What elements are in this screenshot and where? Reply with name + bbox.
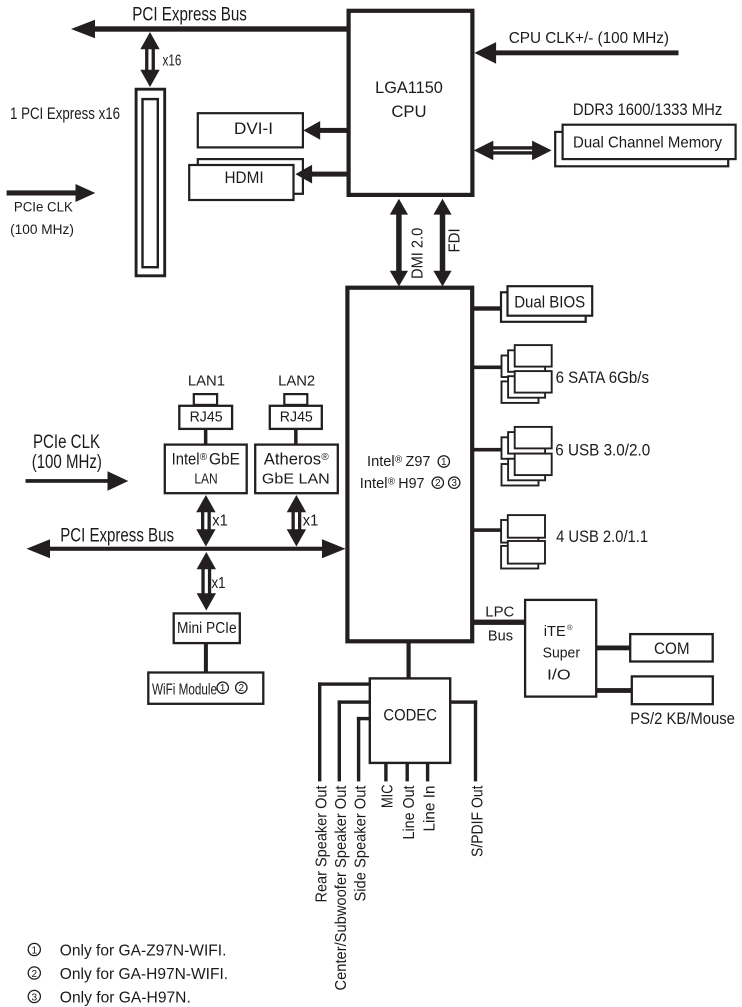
svg-text:Only for GA-H97N.: Only for GA-H97N. [60,990,191,1007]
svg-text:Mini PCIe: Mini PCIe [177,620,237,637]
svg-text:LGA1150: LGA1150 [375,79,443,97]
box Dual BIOS shadow [501,292,586,322]
box HDMI [189,165,293,200]
arrow PCIe CLK (mid) [26,479,111,483]
wire S/PDIF Out [451,700,478,703]
svg-text:x16: x16 [163,52,182,69]
svg-text:2: 2 [239,683,245,694]
arrow CPU to DVI-I [318,128,349,133]
arrow PCIe CLK (top) [7,190,79,195]
svg-text:LPC: LPC [485,605,514,621]
svg-text:Intel: Intel [367,454,395,470]
wire RJ45-2 to LAN2 chip [294,429,298,445]
svg-text:I/O: I/O [547,668,571,684]
box RJ45-1 [179,406,232,429]
connector PCI Express x16 slot inner [143,99,158,267]
arrowhead PCI Express Bus left [71,20,95,38]
arrow x1 LAN2 [287,495,306,512]
box HDMI shadow [198,159,303,194]
svg-text:(100 MHz): (100 MHz) [10,222,74,237]
svg-text:PCI Express Bus: PCI Express Bus [60,526,174,547]
svg-text:iTE: iTE [544,624,566,640]
svg-text:GbE: GbE [209,449,240,468]
svg-text:x1: x1 [212,575,226,592]
svg-text:S/PDIF Out: S/PDIF Out [469,785,486,857]
svg-text:6 SATA 6Gb/s: 6 SATA 6Gb/s [556,368,649,387]
connector 6 USB 3.0 stack upper [502,437,539,459]
connector notch RJ45-2 [284,394,307,405]
svg-text:Dual Channel Memory: Dual Channel Memory [573,134,722,151]
wire CPU CLK [492,50,679,55]
svg-text:Intel: Intel [172,449,200,468]
svg-text:CPU: CPU [391,103,426,121]
svg-text:1: 1 [32,945,38,956]
box PS/2 [632,676,713,704]
connector 4 USB 2.0 stack lower [501,546,538,569]
svg-text:WiFi Module: WiFi Module [152,682,217,699]
arrow DMI 2.0 [390,199,408,215]
svg-text:2: 2 [435,478,441,489]
svg-text:4 USB 2.0/1.1: 4 USB 2.0/1.1 [556,527,648,546]
symbol circled 2 (WiFi) [236,682,247,694]
arrow CPU to HDMI [310,172,349,177]
wire Center/Subwoofer Speaker Out [338,700,370,703]
svg-text:PCI Express Bus: PCI Express Bus [132,3,247,25]
svg-text:PCIe CLK: PCIe CLK [33,432,100,453]
svg-text:COM: COM [654,639,690,658]
svg-text:LAN1: LAN1 [188,374,225,390]
connector 6 SATA stack upper [502,356,539,378]
svg-text:1 PCI Express x16: 1 PCI Express x16 [10,105,120,123]
arrow FDI [433,199,451,215]
svg-text:DVI-I: DVI-I [234,120,273,138]
wire RJ45-1 to LAN1 chip [204,429,208,445]
symbol circled 2 (footnote) [28,967,40,980]
svg-text:H97: H97 [398,476,424,492]
wire Line In [426,763,429,781]
symbol circled 3 (chipset) [449,477,460,489]
svg-text:LAN: LAN [194,472,217,488]
svg-text:Atheros: Atheros [264,449,321,468]
wire chipset to SATA ports [471,366,503,370]
svg-text:PCIe CLK: PCIe CLK [14,200,73,215]
arrowhead bus lower left [27,539,51,558]
wire PCI Express Bus (top) to CPU [92,26,349,31]
svg-text:HDMI: HDMI [225,169,264,187]
wire Mini PCIe to WiFi module [204,643,208,673]
svg-text:Only for GA-Z97N-WIFI.: Only for GA-Z97N-WIFI. [60,943,227,960]
svg-text:Bus: Bus [488,629,513,645]
svg-text:GbE LAN: GbE LAN [262,472,330,488]
arrowhead bus lower right [322,539,346,558]
svg-text:1: 1 [220,683,226,694]
wire chipset to Dual BIOS [471,306,503,310]
arrow x1 LAN1 [196,495,215,512]
symbol circled 3 (footnote) [28,990,40,1003]
box DVI-I [198,113,303,147]
svg-text:RJ45: RJ45 [190,409,223,425]
wire PCI Express Bus (lower) [48,547,324,551]
wire chipset to iTE Super IO (LPC) [472,620,525,625]
svg-text:Intel: Intel [360,476,388,492]
connector 6 SATA stack lower [502,381,539,403]
svg-text:®: ® [388,476,396,487]
box RJ45-2 [270,406,322,429]
arrowhead CPU CLK [474,42,496,64]
box Dual Channel Memory shadow [555,132,728,166]
box COM [630,634,713,661]
svg-text:x1: x1 [303,512,319,529]
connector notch RJ45-1 [194,394,217,405]
wire chipset to CODEC [407,641,411,678]
symbol circled 2 (chipset) [432,477,443,489]
svg-text:®: ® [200,452,208,463]
symbol circled 1 (chipset) [438,456,449,468]
svg-text:Super: Super [543,646,581,662]
svg-text:®: ® [395,454,403,465]
svg-text:FDI: FDI [446,228,463,252]
box iTE Super IO [525,600,596,697]
svg-text:®: ® [567,623,573,632]
box Atheros GbE LAN [255,445,338,494]
svg-text:LAN2: LAN2 [278,374,315,390]
svg-text:®: ® [321,452,329,463]
svg-text:DDR3 1600/1333 MHz: DDR3 1600/1333 MHz [573,100,722,119]
wire Side Speaker Out [357,717,370,720]
svg-text:Center/Subwoofer Speaker Out: Center/Subwoofer Speaker Out [333,785,350,991]
box Dual Channel Memory [563,125,736,159]
svg-text:DMI 2.0: DMI 2.0 [409,227,426,279]
box WiFi Module [148,673,263,704]
box LGA1150 CPU [349,11,473,195]
svg-text:Line Out: Line Out [401,785,418,839]
svg-text:6 USB 3.0/2.0: 6 USB 3.0/2.0 [555,441,650,460]
wire Line Out [406,763,409,781]
box chipset Intel Z97/H97 [347,288,472,642]
box Intel GbE LAN [165,445,247,494]
svg-text:PS/2 KB/Mouse: PS/2 KB/Mouse [630,710,735,728]
connector 4 USB 2.0 stack upper [501,520,538,543]
arrow x16 slot link [140,32,159,49]
svg-text:(100 MHz): (100 MHz) [32,452,102,473]
connector 6 USB 3.0 stack lower [502,464,539,486]
svg-text:2: 2 [32,969,38,980]
box Mini PCIe [174,613,240,643]
connector PCI Express x16 slot outer [136,89,165,276]
svg-text:1: 1 [441,457,447,468]
svg-text:3: 3 [32,992,38,1003]
arrow CPU to memory [474,141,494,161]
wire iTE to PS/2 [596,688,632,693]
wire chipset to USB 2.0 ports [471,528,503,532]
symbol circled 1 (footnote) [28,943,40,956]
svg-text:Line In: Line In [421,786,438,832]
svg-text:Dual BIOS: Dual BIOS [514,293,585,311]
symbol circled 1 (WiFi) [217,682,228,694]
svg-text:CPU CLK+/- (100 MHz): CPU CLK+/- (100 MHz) [509,30,669,47]
wire chipset to USB 3.0 ports [471,448,503,452]
svg-text:x1: x1 [212,512,228,529]
box CODEC [370,678,450,763]
svg-text:RJ45: RJ45 [280,409,313,425]
arrow x1 Mini PCIe [197,552,216,569]
svg-text:Z97: Z97 [406,454,431,470]
svg-text:Side Speaker Out: Side Speaker Out [352,785,369,902]
svg-text:Only for GA-H97N-WIFI.: Only for GA-H97N-WIFI. [60,966,228,983]
wire iTE to COM [596,646,631,651]
wire MIC [384,763,387,781]
svg-text:CODEC: CODEC [383,706,437,724]
wire Rear Speaker Out [318,682,370,685]
svg-text:Rear Speaker Out: Rear Speaker Out [314,785,331,903]
svg-text:MIC: MIC [380,785,397,809]
box Dual BIOS [508,286,593,316]
svg-text:3: 3 [451,478,457,489]
